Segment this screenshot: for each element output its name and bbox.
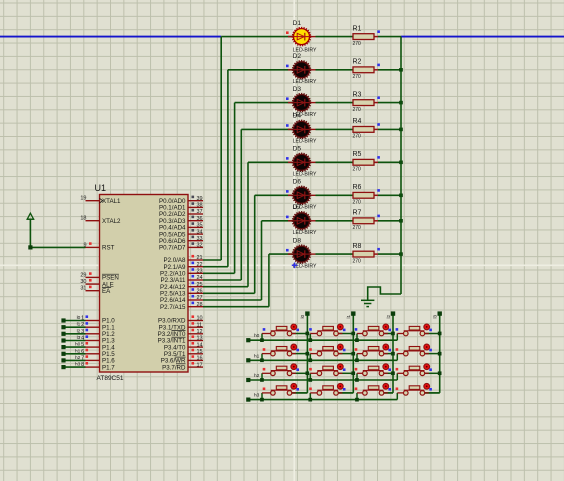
resistor R8 270 bbox=[353, 243, 380, 264]
pin 8 (P1.7) of U1 bbox=[81, 362, 115, 371]
pin 24 (P2.3/A11) of U1 bbox=[161, 275, 204, 284]
pin 17 (P3.7/RD) of U1 bbox=[162, 362, 203, 371]
svg-text:270: 270 bbox=[353, 167, 362, 173]
svg-text:15: 15 bbox=[197, 349, 203, 355]
svg-text:h0: h0 bbox=[75, 342, 81, 348]
wire R4 to bus bbox=[378, 128, 403, 132]
svg-text:270: 270 bbox=[353, 258, 362, 264]
svg-text:XTAL2: XTAL2 bbox=[102, 218, 121, 225]
svg-text:270: 270 bbox=[353, 107, 362, 113]
svg-text:P1.7: P1.7 bbox=[102, 364, 115, 371]
wire D4 to R4 bbox=[316, 128, 354, 130]
pin 13 (P3.3/INT1) of U1 bbox=[158, 335, 203, 344]
wire R7 to bus bbox=[378, 219, 403, 223]
wire P2.2 to LED D3 bbox=[203, 103, 293, 274]
pin 33 (P0.6/AD6) of U1 bbox=[159, 236, 203, 245]
pin 21 (P2.0/A8) of U1 bbox=[163, 255, 203, 264]
pin 30 (ALE) of U1 bbox=[80, 279, 113, 288]
svg-text:LED-BIRY: LED-BIRY bbox=[293, 230, 317, 236]
wire keypad row h0 bbox=[246, 333, 397, 342]
svg-text:R5: R5 bbox=[353, 151, 362, 158]
pushbutton keypad row h2 col l1 bbox=[308, 364, 355, 382]
pushbutton keypad row h1 col l3 bbox=[396, 344, 442, 360]
svg-text:LED-BIRY: LED-BIRY bbox=[293, 79, 317, 85]
svg-text:38: 38 bbox=[197, 203, 203, 209]
svg-text:D2: D2 bbox=[293, 53, 302, 60]
resistor R4 270 bbox=[353, 118, 380, 139]
pushbutton keypad row h2 col l3 bbox=[396, 364, 442, 380]
pushbutton keypad row h0 col l3 bbox=[396, 324, 442, 340]
svg-text:LED-BIRY: LED-BIRY bbox=[293, 139, 317, 145]
wire P2.0 to LED D1 bbox=[203, 37, 293, 260]
pin 9 (RST) of U1 bbox=[83, 242, 114, 251]
pushbutton keypad row h1 col l1 bbox=[308, 344, 355, 362]
wire bus to ground bbox=[368, 287, 401, 300]
wire net h2 to P1.6 with terminal bbox=[61, 355, 85, 363]
wire power to RST pin bbox=[28, 219, 85, 249]
wire P2.3 to LED D4 bbox=[203, 129, 293, 280]
pin 12 (P3.2/INT0) of U1 bbox=[158, 329, 203, 338]
pin 38 (P0.1/AD1) of U1 bbox=[159, 202, 203, 211]
svg-text:R1: R1 bbox=[353, 25, 362, 32]
svg-text:35: 35 bbox=[197, 223, 203, 229]
LED D1 (LED-BIRY, lit) bbox=[286, 20, 317, 54]
svg-text:P2.7/A15: P2.7/A15 bbox=[160, 304, 186, 311]
svg-text:R3: R3 bbox=[353, 91, 362, 98]
svg-text:AT89C51: AT89C51 bbox=[97, 375, 124, 382]
svg-text:24: 24 bbox=[197, 275, 203, 281]
LED D5 (LED-BIRY) bbox=[286, 146, 317, 178]
svg-text:270: 270 bbox=[353, 200, 362, 206]
wire R2 to bus bbox=[378, 68, 403, 72]
resistor R2 270 bbox=[353, 59, 380, 80]
power symbol (VCC arrow) bbox=[27, 213, 35, 219]
svg-text:23: 23 bbox=[197, 269, 203, 275]
svg-text:h0: h0 bbox=[254, 333, 260, 339]
pushbutton keypad row h2 col l2 bbox=[355, 364, 395, 382]
wire net h1 to P1.5 with terminal bbox=[61, 348, 85, 356]
wire net l1 to P1.1 with terminal bbox=[61, 322, 85, 330]
svg-text:l0: l0 bbox=[300, 314, 305, 318]
wire P2.1 to LED D2 bbox=[203, 70, 293, 267]
pin 10 (P3.0/RXD) of U1 bbox=[158, 315, 203, 324]
LED D8 (LED-BIRY) bbox=[286, 237, 317, 269]
pin 35 (P0.4/AD4) of U1 bbox=[159, 222, 203, 231]
pushbutton keypad row h2 col l0 bbox=[260, 364, 309, 382]
wire D6 to R6 bbox=[316, 194, 354, 196]
svg-text:l2: l2 bbox=[77, 328, 81, 334]
svg-text:21: 21 bbox=[197, 255, 203, 261]
svg-text:D8: D8 bbox=[293, 237, 302, 244]
svg-text:h2: h2 bbox=[254, 373, 260, 379]
svg-text:R6: R6 bbox=[353, 184, 362, 191]
wire D7 to R7 bbox=[316, 220, 354, 222]
pin 37 (P0.2/AD2) of U1 bbox=[159, 209, 203, 218]
svg-text:R7: R7 bbox=[353, 210, 362, 217]
pin 18 (XTAL2) of U1 bbox=[80, 216, 121, 225]
pin 32 (P0.7/AD7) of U1 bbox=[159, 242, 203, 251]
pin 19 (XTAL1) of U1 bbox=[80, 196, 121, 205]
svg-text:RST: RST bbox=[102, 245, 115, 252]
wire R1 to bus bbox=[378, 36, 401, 38]
wire keypad row h1 bbox=[246, 353, 397, 362]
wire D5 to R5 bbox=[316, 161, 354, 163]
terminal keypad column l3 bbox=[433, 311, 442, 318]
svg-text:270: 270 bbox=[353, 134, 362, 140]
resistor R5 270 bbox=[353, 151, 380, 172]
pushbutton keypad row h3 col l3 bbox=[396, 383, 440, 399]
svg-text:36: 36 bbox=[197, 216, 203, 222]
LED D2 (LED-BIRY) bbox=[286, 53, 317, 85]
svg-text:D3: D3 bbox=[293, 86, 302, 93]
svg-text:l1: l1 bbox=[77, 322, 81, 328]
svg-text:D5: D5 bbox=[293, 146, 302, 153]
svg-text:37: 37 bbox=[197, 209, 203, 215]
svg-text:R8: R8 bbox=[353, 243, 362, 250]
pushbutton keypad row h3 col l1 bbox=[308, 383, 353, 401]
wire blue power rail left segment bbox=[0, 36, 221, 38]
LED D4 (LED-BIRY) bbox=[286, 113, 317, 145]
svg-text:LED-BIRY: LED-BIRY bbox=[293, 263, 317, 269]
wire resistor common bus bbox=[400, 37, 402, 294]
node marker below D8 bbox=[292, 263, 298, 269]
wire P2.6 to LED D7 bbox=[203, 221, 293, 300]
terminal keypad column l1 bbox=[346, 311, 355, 318]
wire R8 to bus bbox=[378, 252, 403, 256]
svg-text:P3.7/RD: P3.7/RD bbox=[162, 364, 186, 371]
resistor R3 270 bbox=[353, 91, 380, 112]
pin 29 (PSEN) of U1 bbox=[80, 272, 119, 281]
svg-text:18: 18 bbox=[80, 216, 86, 222]
pin 27 (P2.6/A14) of U1 bbox=[160, 295, 203, 304]
svg-text:25: 25 bbox=[197, 282, 203, 288]
pin 1 (P1.0) of U1 bbox=[81, 315, 115, 324]
svg-text:17: 17 bbox=[197, 362, 203, 368]
svg-text:h1: h1 bbox=[75, 348, 81, 354]
pin 26 (P2.5/A13) of U1 bbox=[160, 288, 203, 297]
wire D3 to R3 bbox=[316, 102, 354, 104]
wire keypad column l2 bbox=[384, 314, 393, 393]
wire net l0 to P1.0 with terminal bbox=[61, 315, 85, 323]
svg-text:l0: l0 bbox=[77, 315, 81, 321]
svg-text:16: 16 bbox=[197, 356, 203, 362]
wire keypad row h3 bbox=[246, 393, 397, 402]
wire D2 to R2 bbox=[316, 69, 354, 71]
wire R6 to bus bbox=[378, 194, 403, 198]
svg-text:h1: h1 bbox=[254, 353, 260, 359]
svg-text:30: 30 bbox=[80, 279, 86, 285]
LED D7 (LED-BIRY) bbox=[286, 204, 317, 236]
svg-text:31: 31 bbox=[80, 286, 86, 292]
svg-text:33: 33 bbox=[197, 236, 203, 242]
wire P2.5 to LED D6 bbox=[203, 195, 293, 293]
terminal keypad column l2 bbox=[386, 311, 395, 318]
svg-text:l3: l3 bbox=[77, 335, 81, 341]
wire keypad row h2 bbox=[246, 373, 397, 382]
pin 23 (P2.2/A10) of U1 bbox=[160, 268, 203, 277]
pin 31 (EA) of U1 bbox=[80, 286, 111, 295]
svg-text:12: 12 bbox=[197, 329, 203, 335]
pin 6 (P1.5) of U1 bbox=[81, 349, 115, 358]
svg-text:26: 26 bbox=[197, 289, 203, 295]
svg-text:h2: h2 bbox=[75, 355, 81, 361]
svg-text:19: 19 bbox=[80, 196, 86, 202]
pin 11 (P3.1/TXD) of U1 bbox=[159, 322, 203, 331]
svg-text:h3: h3 bbox=[254, 393, 260, 399]
svg-text:EA: EA bbox=[102, 288, 111, 295]
ground symbol bbox=[361, 300, 374, 306]
wire keypad column l3 bbox=[425, 314, 440, 393]
op IC U1 AT89C51 body bbox=[95, 183, 189, 382]
pin 14 (P3.4/T0) of U1 bbox=[164, 342, 203, 351]
wire net h0 to P1.4 with terminal bbox=[61, 342, 85, 350]
terminal keypad column l0 bbox=[300, 311, 309, 318]
svg-text:LED-BIRY: LED-BIRY bbox=[293, 172, 317, 178]
svg-text:U1: U1 bbox=[95, 183, 107, 193]
LED D3 (LED-BIRY) bbox=[286, 86, 317, 118]
wire net l3 to P1.3 with terminal bbox=[61, 335, 85, 343]
pin 16 (P3.6/WR) of U1 bbox=[161, 355, 203, 364]
pin 5 (P1.4) of U1 bbox=[81, 342, 115, 351]
svg-text:10: 10 bbox=[197, 316, 203, 322]
pushbutton keypad row h3 col l2 bbox=[355, 383, 393, 401]
svg-text:270: 270 bbox=[353, 225, 362, 231]
svg-text:R2: R2 bbox=[353, 59, 362, 66]
svg-text:29: 29 bbox=[80, 272, 86, 278]
pushbutton keypad row h1 col l0 bbox=[260, 344, 309, 362]
wire keypad column l1 bbox=[338, 314, 353, 393]
resistor R6 270 bbox=[353, 184, 380, 205]
svg-text:l2: l2 bbox=[386, 314, 391, 318]
wire D8 to R8 bbox=[316, 253, 354, 255]
resistor R7 270 bbox=[353, 210, 380, 231]
wire R3 to bus bbox=[378, 101, 403, 105]
wire R5 to bus bbox=[378, 161, 403, 165]
svg-text:270: 270 bbox=[353, 41, 362, 47]
svg-text:XTAL1: XTAL1 bbox=[102, 198, 121, 205]
wire net l2 to P1.2 with terminal bbox=[61, 328, 85, 336]
wire keypad column l0 bbox=[292, 314, 308, 393]
wire P2.7 to LED D8 bbox=[203, 254, 293, 307]
LED D6 (LED-BIRY) bbox=[286, 179, 317, 211]
svg-text:14: 14 bbox=[197, 342, 203, 348]
svg-text:270: 270 bbox=[353, 74, 362, 80]
svg-text:D4: D4 bbox=[293, 113, 302, 120]
pushbutton keypad row h1 col l2 bbox=[355, 344, 395, 362]
svg-text:h3: h3 bbox=[75, 362, 81, 368]
pin 39 (P0.0/AD0) of U1 bbox=[159, 196, 203, 205]
pin 34 (P0.5/AD5) of U1 bbox=[159, 229, 203, 238]
wire net h3 to P1.7 with terminal bbox=[61, 362, 85, 370]
svg-text:11: 11 bbox=[197, 322, 203, 328]
svg-text:27: 27 bbox=[197, 295, 203, 301]
pushbutton keypad row h0 col l1 bbox=[308, 324, 355, 342]
pin 4 (P1.3) of U1 bbox=[81, 335, 115, 344]
svg-text:34: 34 bbox=[197, 229, 203, 235]
pin 3 (P1.2) of U1 bbox=[81, 329, 115, 338]
svg-text:39: 39 bbox=[197, 196, 203, 202]
resistor R1 270 bbox=[353, 25, 380, 46]
svg-text:32: 32 bbox=[197, 243, 203, 249]
svg-text:D7: D7 bbox=[293, 204, 302, 211]
svg-text:l3: l3 bbox=[433, 314, 438, 318]
pin 25 (P2.4/A12) of U1 bbox=[160, 282, 203, 291]
svg-text:R4: R4 bbox=[353, 118, 362, 125]
pin 7 (P1.6) of U1 bbox=[81, 355, 115, 364]
pushbutton keypad row h0 col l0 bbox=[260, 324, 309, 342]
pushbutton keypad row h3 col l0 bbox=[260, 383, 307, 401]
svg-text:D6: D6 bbox=[293, 179, 302, 186]
svg-text:22: 22 bbox=[197, 262, 203, 268]
svg-text:D1: D1 bbox=[293, 20, 302, 27]
pushbutton keypad row h0 col l2 bbox=[355, 324, 395, 342]
pin 2 (P1.1) of U1 bbox=[81, 322, 115, 331]
svg-text:P0.7/AD7: P0.7/AD7 bbox=[159, 245, 186, 252]
pin 15 (P3.5/T1) of U1 bbox=[164, 349, 203, 358]
pin 22 (P2.1/A9) of U1 bbox=[163, 262, 203, 271]
svg-text:13: 13 bbox=[197, 336, 203, 342]
pin 28 (P2.7/A15) of U1 bbox=[160, 302, 203, 311]
svg-text:l1: l1 bbox=[346, 314, 351, 318]
wire D1 to R1 bbox=[316, 36, 354, 38]
svg-text:28: 28 bbox=[197, 302, 203, 308]
wire blue power rail right segment bbox=[401, 36, 564, 38]
wire P2.4 to LED D5 bbox=[203, 162, 293, 286]
pin 36 (P0.3/AD3) of U1 bbox=[159, 216, 203, 225]
